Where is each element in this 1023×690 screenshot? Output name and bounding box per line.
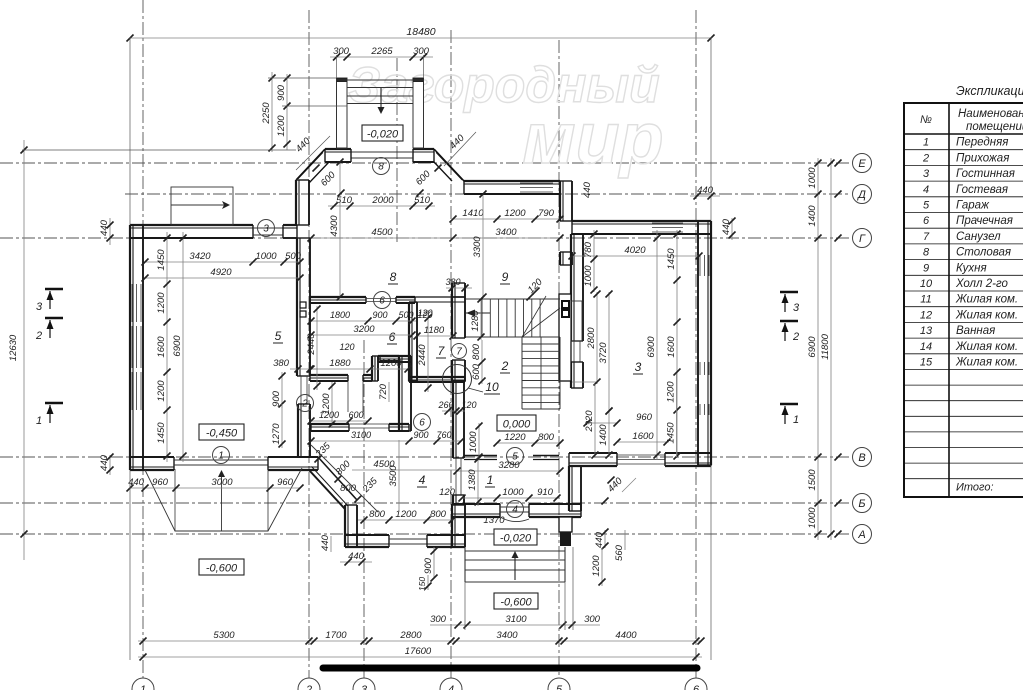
wall south right wing east	[665, 465, 711, 467]
svg-text:7: 7	[456, 347, 462, 358]
svg-text:1800: 1800	[330, 310, 350, 320]
svg-text:3: 3	[36, 301, 43, 313]
wall step bay to right wing	[559, 181, 561, 221]
svg-text:800: 800	[369, 509, 386, 520]
dim 150 porch	[427, 575, 429, 590]
svg-text:3: 3	[263, 224, 269, 235]
svg-text:900: 900	[276, 84, 287, 101]
dim 440 560 1200 porch right	[604, 530, 606, 548]
dim 440 top left wing	[109, 218, 111, 245]
axis line B (horizontal)	[0, 502, 851, 504]
svg-text:6900: 6900	[172, 335, 183, 357]
svg-text:1: 1	[140, 684, 146, 690]
svg-text:3300: 3300	[472, 236, 483, 258]
svg-text:9: 9	[502, 270, 509, 284]
axis bubble А	[835, 525, 872, 544]
svg-text:1450: 1450	[156, 249, 167, 271]
svg-text:3280: 3280	[498, 460, 520, 471]
dim 600 wc	[481, 364, 483, 384]
wall east of hall (step down)	[568, 466, 570, 511]
marker 3 on north wall	[258, 220, 275, 237]
dim 800 1200 800	[358, 519, 455, 521]
svg-text:500: 500	[398, 310, 413, 320]
dim 260 120	[442, 410, 465, 412]
svg-text:0,000: 0,000	[503, 419, 531, 431]
wall north right wing	[572, 220, 711, 222]
dim 1880 1200	[311, 368, 408, 370]
dim 1800 900 500 120	[311, 320, 416, 322]
svg-text:14: 14	[920, 341, 932, 353]
svg-text:Санузел: Санузел	[956, 231, 1001, 243]
window east wall 3	[699, 404, 701, 415]
svg-text:6: 6	[419, 418, 425, 429]
svg-text:1220: 1220	[504, 432, 526, 443]
axis line G (horizontal)	[0, 237, 851, 239]
wall south center right	[529, 516, 581, 518]
dim ext left top	[129, 37, 131, 225]
axis centerline porch (vertical)	[396, 58, 398, 242]
svg-text:300: 300	[333, 46, 350, 57]
svg-text:В: В	[858, 452, 865, 464]
svg-text:11800: 11800	[820, 333, 831, 359]
window north right wing	[652, 222, 683, 224]
dim 4020	[572, 255, 699, 257]
svg-text:6: 6	[389, 330, 396, 344]
svg-text:6: 6	[693, 684, 700, 690]
wall bay top right stub	[413, 148, 434, 150]
dim chamfer diagonal	[311, 445, 378, 512]
svg-text:900: 900	[413, 430, 428, 440]
wall garage east lower	[297, 404, 299, 457]
axis line V (horizontal)	[0, 456, 851, 458]
staircase upper flight	[466, 296, 560, 337]
svg-text:8: 8	[378, 162, 384, 173]
svg-text:380: 380	[273, 358, 290, 369]
window south right wing	[617, 454, 665, 456]
detail callout circle 10	[443, 365, 501, 395]
svg-text:13: 13	[920, 325, 933, 337]
svg-text:4: 4	[923, 184, 929, 196]
door opening garage east	[300, 376, 302, 404]
door opening south	[500, 506, 529, 508]
partition room4/room1	[452, 382, 454, 458]
svg-text:440: 440	[582, 181, 593, 198]
explication table	[904, 84, 1023, 497]
hinge squares on garage wall	[300, 302, 306, 308]
svg-text:1410: 1410	[462, 208, 484, 219]
dim 1200 rw	[676, 374, 678, 412]
dim 300 3100 300	[430, 624, 600, 626]
svg-text:4020: 4020	[624, 245, 646, 256]
porch pillar cap left	[337, 78, 348, 82]
axis bubble 3 bottom	[353, 678, 375, 690]
section marker 1 left	[45, 402, 63, 405]
dim 6900 left wing	[182, 232, 184, 462]
svg-text:1200: 1200	[504, 208, 526, 219]
svg-text:910: 910	[537, 487, 554, 498]
svg-text:Жилая ком.: Жилая ком.	[955, 357, 1018, 369]
axis bubble 6 bottom	[685, 678, 707, 690]
window east wall 1	[699, 255, 701, 276]
porch pillar cap right	[413, 78, 424, 82]
dim ext bottom	[129, 470, 131, 660]
svg-text:3500: 3500	[388, 465, 399, 487]
svg-text:1: 1	[487, 473, 494, 487]
dim 900 1200	[286, 74, 288, 150]
window west wall 1	[131, 284, 133, 322]
dim main bottom chain	[138, 640, 702, 642]
dim 800 wc	[481, 340, 483, 364]
svg-text:120: 120	[461, 400, 476, 410]
dim ext left	[22, 149, 296, 151]
svg-text:4500: 4500	[371, 227, 393, 238]
svg-text:4920: 4920	[210, 267, 232, 278]
pier above wc	[451, 283, 453, 297]
svg-text:Е: Е	[858, 158, 866, 170]
svg-text:2440: 2440	[306, 333, 317, 356]
svg-text:4: 4	[419, 473, 426, 487]
dim 12630 left	[23, 140, 25, 560]
svg-text:1000: 1000	[255, 251, 277, 262]
porch top edge	[337, 79, 424, 81]
dim 1220 800	[497, 442, 560, 444]
dim 4500 chamfer	[352, 469, 455, 471]
garage door opening	[174, 459, 268, 461]
svg-text:960: 960	[636, 412, 653, 423]
partition below laundry	[311, 423, 349, 425]
svg-text:Наименование: Наименование	[958, 108, 1023, 120]
svg-text:Итого:: Итого:	[956, 482, 994, 494]
dim 3300 vertical	[482, 194, 484, 297]
svg-text:900: 900	[372, 310, 387, 320]
svg-text:Холл 2-го: Холл 2-го	[955, 278, 1008, 290]
porch steps top	[347, 88, 413, 104]
bay left wall	[344, 505, 346, 547]
svg-text:600: 600	[471, 363, 482, 380]
svg-text:1: 1	[923, 137, 929, 149]
svg-text:1200: 1200	[591, 555, 602, 577]
svg-text:10: 10	[920, 278, 933, 290]
svg-text:Столовая: Столовая	[956, 247, 1011, 259]
dim 17600	[138, 656, 702, 658]
dim 2440 wc	[427, 310, 429, 392]
svg-text:2800: 2800	[399, 630, 422, 641]
svg-text:1000: 1000	[583, 265, 594, 287]
wall east right wing	[710, 221, 712, 465]
svg-text:780: 780	[583, 241, 594, 258]
partition hall/room1 b	[533, 455, 559, 457]
marker 7 wc	[452, 344, 467, 359]
svg-text:2: 2	[305, 684, 312, 690]
svg-text:1200: 1200	[156, 380, 167, 402]
svg-text:260: 260	[437, 400, 453, 410]
dim 3720 rw	[608, 292, 610, 413]
door room4	[455, 458, 457, 495]
svg-text:5: 5	[275, 329, 282, 343]
dim 4300 vertical	[339, 162, 341, 297]
wall laundry jog	[371, 356, 373, 381]
porch arrow down	[378, 88, 385, 114]
svg-text:4: 4	[448, 684, 454, 690]
window bay east	[520, 182, 553, 184]
svg-text:440: 440	[348, 551, 365, 562]
svg-text:440: 440	[697, 185, 714, 196]
elevation -0,600 bottom	[494, 593, 538, 609]
window west wall 2	[131, 326, 133, 368]
wall wc east upper	[451, 297, 453, 338]
svg-text:Б: Б	[858, 498, 865, 510]
wall wc north partition	[411, 296, 465, 298]
dim 4920	[145, 277, 300, 279]
porch pier left (bay right wall)	[451, 504, 453, 547]
svg-text:18480: 18480	[406, 26, 435, 38]
svg-text:1600: 1600	[666, 336, 677, 358]
pier kitchen east	[559, 252, 561, 265]
dim 900 garage	[281, 372, 283, 408]
svg-text:600: 600	[348, 410, 363, 420]
svg-text:3720: 3720	[598, 342, 609, 364]
svg-text:1200: 1200	[156, 292, 167, 314]
dim 380 kitchen	[446, 287, 472, 289]
svg-text:1180: 1180	[424, 325, 445, 336]
svg-text:510: 510	[336, 195, 353, 206]
svg-text:300: 300	[413, 46, 430, 57]
dim 1450 rw	[676, 412, 678, 457]
svg-text:1200: 1200	[380, 358, 402, 369]
svg-text:3000: 3000	[211, 477, 233, 488]
elevation -0,020 top	[362, 125, 403, 141]
svg-text:12630: 12630	[8, 334, 19, 361]
opening north left wall	[253, 227, 283, 229]
svg-text:1280: 1280	[470, 310, 481, 332]
svg-text:6900: 6900	[646, 336, 657, 358]
svg-text:1200: 1200	[666, 381, 677, 403]
axis line E (horizontal)	[0, 162, 851, 164]
svg-text:Прачечная: Прачечная	[956, 215, 1013, 227]
wall bay top left stub	[325, 148, 351, 150]
wall wc west	[408, 302, 410, 381]
axis line 5 (vertical)	[558, 40, 560, 678]
wall south of hall	[452, 516, 500, 518]
svg-text:380: 380	[445, 277, 460, 287]
wall chamfer southwest	[309, 457, 357, 509]
dim 3500 chamfer	[398, 440, 400, 512]
dim right chain	[817, 158, 819, 540]
door stairhall	[573, 341, 575, 362]
bay bottom wall left	[345, 546, 389, 548]
dim 1600 rw	[676, 230, 678, 458]
dim 2440 laundry	[316, 306, 318, 390]
svg-text:мир: мир	[522, 99, 663, 179]
dim 1270 garage	[281, 404, 283, 448]
svg-text:5: 5	[923, 200, 930, 212]
svg-text:2000: 2000	[371, 195, 394, 206]
dim ext porch left	[268, 77, 336, 79]
dim 440 at axis D right	[690, 195, 720, 197]
dim 900 porch left	[433, 547, 435, 578]
section marker 3 right	[780, 291, 798, 294]
svg-text:1500: 1500	[807, 469, 818, 491]
partition hall/room1 a	[464, 455, 497, 457]
svg-text:1270: 1270	[271, 423, 282, 445]
dim left wing chain	[166, 232, 168, 462]
svg-text:440: 440	[594, 531, 605, 548]
svg-text:1700: 1700	[325, 630, 347, 641]
dim 2250 left of porch	[271, 72, 273, 152]
dim 3280	[457, 470, 560, 472]
svg-text:А: А	[857, 529, 865, 541]
dim 11800	[830, 158, 832, 540]
dim 1380 room1	[477, 456, 479, 506]
svg-text:6: 6	[923, 215, 930, 227]
svg-text:Жилая ком.: Жилая ком.	[955, 341, 1018, 353]
wall stairhall west lower	[570, 362, 572, 388]
svg-text:Кухня: Кухня	[956, 262, 987, 274]
dim 6900 rw	[656, 230, 658, 460]
svg-text:4: 4	[512, 505, 518, 516]
dim 1000 room1	[478, 423, 480, 460]
wall south garage right part	[268, 469, 318, 471]
svg-text:2800: 2800	[586, 327, 597, 350]
svg-text:Экспликация: Экспликация	[956, 84, 1023, 98]
svg-text:Гостинная: Гостинная	[956, 168, 1015, 180]
wall partition vertical	[398, 356, 400, 431]
svg-text:1400: 1400	[598, 424, 609, 446]
svg-text:1450: 1450	[156, 422, 167, 444]
elevation 0,000	[497, 415, 536, 431]
axis line 4 (vertical)	[450, 30, 452, 678]
svg-text:2: 2	[922, 152, 929, 164]
axis bubble Б	[835, 494, 872, 513]
svg-text:120: 120	[439, 487, 456, 498]
svg-text:3420: 3420	[189, 251, 211, 262]
dim 780 1000 rw	[593, 230, 595, 292]
svg-text:790: 790	[538, 208, 555, 219]
partition below laundry right	[389, 423, 409, 425]
wall north left wing	[130, 224, 253, 226]
svg-text:3400: 3400	[495, 227, 517, 238]
dim 1200 600 partition	[311, 420, 368, 422]
axis bubble 1 bottom	[132, 678, 154, 690]
svg-text:2: 2	[301, 399, 308, 410]
porch pillar left	[337, 78, 348, 148]
svg-text:Гараж: Гараж	[956, 200, 990, 212]
svg-text:1: 1	[218, 451, 224, 462]
svg-text:3: 3	[361, 684, 368, 690]
svg-text:1000: 1000	[502, 487, 524, 498]
svg-text:1380: 1380	[467, 469, 478, 491]
svg-text:1: 1	[793, 414, 799, 426]
axis bubble 4 bottom	[440, 678, 462, 690]
svg-text:-0,020: -0,020	[367, 129, 399, 141]
bay door opening	[351, 151, 413, 153]
dim 1280 stairs	[480, 299, 482, 340]
dim 300 2265 300	[330, 56, 433, 58]
wall south right wing	[569, 465, 617, 467]
wall west (garage left)	[129, 225, 131, 470]
svg-text:1200: 1200	[276, 115, 287, 137]
svg-text:1400: 1400	[807, 205, 818, 227]
axis line 6 (vertical)	[695, 10, 697, 678]
driveway apron	[145, 468, 302, 531]
svg-text:1200: 1200	[319, 410, 339, 420]
svg-text:2440: 2440	[417, 344, 428, 367]
wall bay diagonal right	[434, 149, 464, 181]
svg-text:3: 3	[635, 360, 642, 374]
wall wc east lower	[451, 360, 453, 381]
svg-text:4300: 4300	[329, 215, 340, 237]
dim 2320 rw	[594, 384, 596, 457]
porch south steps	[465, 547, 565, 582]
window laundry north	[366, 298, 396, 300]
svg-text:-0,020: -0,020	[500, 533, 532, 545]
svg-text:510: 510	[414, 195, 431, 206]
axis bubble Г	[835, 229, 872, 248]
svg-text:6: 6	[379, 296, 385, 307]
svg-text:3400: 3400	[496, 630, 518, 641]
svg-text:Жилая ком.: Жилая ком.	[955, 309, 1018, 321]
svg-text:800: 800	[471, 343, 482, 360]
svg-text:150: 150	[417, 577, 427, 591]
svg-text:960: 960	[152, 477, 169, 488]
wall laundry north	[310, 296, 366, 298]
svg-text:800: 800	[430, 509, 447, 520]
wall laundry south right	[378, 355, 411, 357]
dim 3420 1000 500	[145, 261, 300, 263]
svg-text:7: 7	[923, 231, 930, 243]
axis bubble Д	[835, 185, 872, 204]
svg-text:Передняя: Передняя	[956, 137, 1008, 149]
svg-text:1: 1	[36, 415, 42, 427]
dim 1600 rw bottom	[617, 441, 667, 443]
axis bubble Е	[835, 154, 872, 173]
svg-text:1370: 1370	[483, 515, 505, 526]
wall south garage left part	[130, 469, 174, 471]
svg-text:900: 900	[271, 390, 282, 407]
svg-text:9: 9	[923, 262, 929, 274]
dim 1410 1200 790	[453, 218, 560, 220]
svg-text:4400: 4400	[615, 630, 637, 641]
svg-text:№: №	[920, 114, 932, 126]
svg-text:11: 11	[920, 294, 931, 306]
svg-text:2265: 2265	[370, 46, 393, 57]
svg-text:5300: 5300	[213, 630, 235, 641]
svg-text:1600: 1600	[156, 336, 167, 358]
dim ext porch	[336, 55, 338, 78]
svg-text:300: 300	[584, 614, 601, 625]
svg-text:440: 440	[320, 534, 331, 551]
svg-text:1450: 1450	[666, 422, 677, 444]
svg-text:440: 440	[721, 218, 732, 235]
marker 5 center	[507, 448, 524, 465]
window partition	[349, 423, 389, 425]
svg-text:2: 2	[35, 330, 42, 342]
chimney	[559, 294, 582, 381]
wall laundry south b	[363, 374, 372, 376]
svg-text:помещений: помещений	[966, 121, 1023, 133]
wall bay diagonal left	[296, 149, 329, 183]
axis bubble В	[835, 448, 872, 467]
svg-text:2: 2	[501, 359, 509, 373]
dim 18480 top	[130, 37, 711, 39]
svg-text:1600: 1600	[632, 431, 654, 442]
bay window bottom	[389, 538, 427, 540]
svg-text:-0,600: -0,600	[500, 597, 532, 609]
dim 1180 wc	[417, 335, 453, 337]
svg-text:440: 440	[128, 477, 145, 488]
svg-text:Г: Г	[859, 233, 866, 245]
section marker 1 right	[780, 403, 798, 406]
